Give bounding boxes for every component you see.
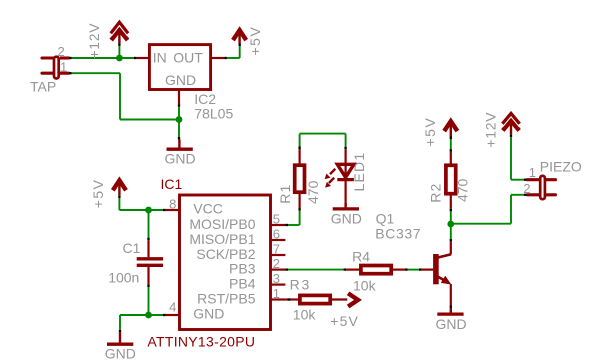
microcontroller IC1 box	[180, 195, 271, 330]
wire R2 top to +5V	[450, 136, 452, 151]
supply symbol +5V (right of R3)	[348, 293, 358, 306]
resistor R3	[285, 295, 347, 303]
svg-text:GND: GND	[331, 210, 362, 226]
svg-text:+5V: +5V	[247, 26, 263, 56]
svg-text:Q1: Q1	[376, 210, 395, 226]
ground symbol below LED1	[331, 203, 362, 226]
wire junction down to C1	[148, 210, 150, 240]
svg-text:TAP: TAP	[30, 78, 56, 94]
svg-text:8: 8	[169, 196, 176, 211]
svg-text:R1: R1	[277, 184, 293, 204]
svg-text:2: 2	[273, 256, 280, 271]
svg-text:+12V: +12V	[86, 23, 102, 59]
svg-text:6: 6	[273, 226, 280, 241]
svg-text:2: 2	[523, 181, 530, 196]
IC1 pin 6 stub	[271, 239, 286, 241]
IC1 pin 3 stub	[271, 284, 286, 286]
junction C1/IC1-GND node	[145, 312, 152, 319]
wire IC1 pin2 to R4	[285, 268, 346, 270]
wire +5V to IC1 VCC pin8	[119, 195, 165, 210]
junction GND node at 78L05	[176, 116, 183, 123]
resistor R2	[446, 152, 456, 209]
junction +12V node	[116, 55, 123, 62]
svg-text:RST/PB5: RST/PB5	[197, 291, 256, 307]
svg-text:+5V: +5V	[330, 313, 359, 329]
wire junction to PIEZO pin2	[451, 195, 527, 224]
svg-text:GND: GND	[165, 72, 196, 88]
supply symbol +12V (left)	[111, 23, 127, 43]
ground symbol below IC2	[164, 140, 195, 167]
junction R2/collector/PIEZO node	[447, 221, 454, 228]
wire collector to junction	[450, 224, 452, 241]
IC1 pin 8 stub (VCC)	[166, 209, 180, 211]
svg-text:OUT: OUT	[173, 50, 203, 66]
supply symbol +12V (right)	[503, 114, 519, 134]
junction VCC/C1 node	[145, 207, 152, 214]
ground symbol bottom-left	[105, 332, 136, 361]
svg-text:+5V: +5V	[90, 178, 106, 208]
IC1 pin 5 stub	[271, 224, 286, 226]
wire R4 to Q1 base	[405, 268, 422, 270]
svg-text:VCC: VCC	[193, 201, 223, 217]
svg-text:3: 3	[273, 271, 280, 286]
wire IC1 pin5 to R1	[285, 208, 299, 225]
svg-text:PB4: PB4	[229, 276, 256, 292]
svg-text:C1: C1	[123, 240, 141, 256]
svg-text:PB3: PB3	[229, 261, 256, 277]
LED LED1	[337, 149, 354, 206]
IC2 pin IN	[136, 57, 148, 59]
IC1 pin 4 stub (GND)	[166, 314, 180, 316]
svg-text:5: 5	[273, 211, 280, 226]
svg-text:IN: IN	[153, 50, 167, 66]
svg-text:2: 2	[58, 44, 65, 59]
ground symbol below Q1	[435, 308, 466, 332]
svg-text:7: 7	[273, 241, 280, 256]
IC2 pin GND (bottom)	[178, 90, 180, 104]
svg-text:SCK/PB2: SCK/PB2	[196, 246, 255, 262]
svg-text:1: 1	[529, 165, 536, 180]
LED1 emission arrow upper	[325, 169, 336, 179]
supply symbol +5V (above IC2 OUT)	[233, 30, 246, 43]
wire IC2 GND pin down to GND symbol	[178, 104, 180, 139]
wire TAP pin2 to IN (net +12V)	[69, 57, 136, 59]
svg-text:MISO/PB1: MISO/PB1	[189, 231, 255, 247]
svg-text:GND: GND	[435, 316, 466, 332]
IC1 pin 2 stub	[271, 269, 286, 271]
wire +12V to PIEZO pin1	[511, 134, 527, 179]
connector PIEZO	[527, 176, 556, 199]
svg-text:GND: GND	[105, 346, 136, 362]
transistor Q1	[422, 241, 452, 308]
svg-text:ATTINY13-20PU: ATTINY13-20PU	[147, 333, 255, 349]
wire R1 top to LED top	[300, 134, 346, 150]
svg-text:470: 470	[305, 180, 321, 204]
svg-text:GND: GND	[193, 306, 224, 322]
resistor R1	[295, 149, 305, 208]
svg-text:R2: R2	[428, 183, 444, 203]
svg-text:+5V: +5V	[422, 117, 438, 147]
LED1 emission arrow lower	[325, 178, 334, 188]
resistor R4	[346, 266, 405, 274]
svg-text:IC1: IC1	[161, 176, 183, 192]
IC2 pin OUT	[211, 57, 224, 59]
svg-text:PIEZO: PIEZO	[540, 159, 582, 175]
wire OUT to +5V arrow	[224, 44, 239, 59]
supply symbol +5V (above R2)	[444, 121, 457, 136]
wire R2 bottom to junction	[450, 209, 452, 224]
svg-text:GND: GND	[164, 151, 195, 167]
IC1 pin 1 stub	[271, 298, 286, 300]
svg-text:470: 470	[455, 178, 471, 202]
svg-text:1: 1	[273, 286, 280, 301]
wire junction up to +12V arrow	[118, 46, 120, 58]
voltage regulator IC2 box	[149, 45, 210, 90]
svg-text:BC337: BC337	[375, 226, 421, 242]
connector TAP	[42, 57, 70, 79]
wire C1 bottom to GND net	[120, 284, 166, 332]
svg-text:4: 4	[169, 300, 176, 315]
svg-text:1: 1	[60, 60, 67, 75]
svg-text:LED1: LED1	[351, 152, 367, 192]
svg-text:R3: R3	[290, 276, 312, 292]
svg-text:R4: R4	[352, 248, 370, 264]
supply symbol +5V (above IC1)	[113, 180, 126, 195]
svg-text:+12V: +12V	[482, 112, 498, 148]
wire TAP pin1 to GND net	[69, 73, 179, 119]
IC1 pin 7 stub	[271, 254, 286, 256]
svg-text:10k: 10k	[353, 277, 377, 293]
svg-text:100n: 100n	[108, 270, 139, 286]
svg-text:78L05: 78L05	[194, 105, 233, 121]
svg-text:MOSI/PB0: MOSI/PB0	[189, 216, 255, 232]
svg-text:10k: 10k	[293, 306, 317, 322]
capacitor C1	[137, 240, 163, 284]
